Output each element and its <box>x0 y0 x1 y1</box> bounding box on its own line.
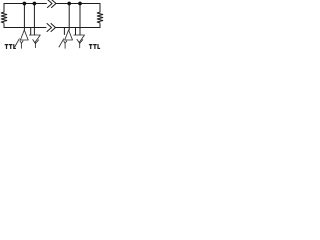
wire right end drop <box>99 4 101 13</box>
wire tap vertical D (x80) <box>79 4 81 36</box>
wire left end drop <box>3 4 5 13</box>
wire bottom bus left segment <box>4 27 46 29</box>
arrowhead V on G2 output <box>33 40 39 44</box>
label TTL left <box>5 44 16 49</box>
junction dot 4 <box>78 2 82 6</box>
wire top bus left segment <box>4 3 47 5</box>
junction dot 2 <box>33 2 37 6</box>
resistor R2 (right termination) <box>97 12 103 23</box>
resistor R1 (left termination) <box>1 12 7 23</box>
arrow stem below G3 <box>64 43 66 48</box>
break chevrons bottom line <box>47 24 56 32</box>
driver gate G3 (up triangle, right station) <box>65 30 73 40</box>
arrowhead V on G4 output <box>77 39 83 43</box>
receiver gate G4 (down triangle, right station) <box>74 35 85 42</box>
wire tap vertical C (x69.2) <box>68 4 70 31</box>
junction dot 1 <box>23 2 27 6</box>
wire tap vertical A (x24.4) <box>23 4 25 31</box>
label TTL right <box>89 44 100 49</box>
receiver gate G2 (down triangle, left station) <box>29 35 40 42</box>
wire short drop from bottom bus to G4 (x75.5) <box>75 28 77 36</box>
arrow stem below G1 <box>20 43 22 48</box>
driver gate G1 (up triangle, left station) <box>20 30 28 40</box>
wire top bus right segment <box>56 3 101 5</box>
junction dot 3 <box>67 2 71 6</box>
wire short drop from bottom bus at G3 left (x64.4) <box>63 28 65 35</box>
wire bottom bus right segment <box>55 27 100 29</box>
wire short drop from bottom bus to G2 (x30.7) <box>30 28 32 36</box>
wire right resistor to bottom bus <box>99 24 101 28</box>
break chevrons top line <box>48 0 57 8</box>
arrowhead V below G1 <box>20 41 23 43</box>
wire tap vertical B (x34.4) <box>33 4 35 36</box>
output arrow stem of G2 <box>34 42 36 47</box>
output arrow stem of G4 <box>79 43 81 48</box>
arrowhead V below G3 <box>64 41 67 43</box>
arrow into G1 from TTL left <box>15 39 20 47</box>
arrow into G3 from below <box>59 39 64 47</box>
wire left resistor to bottom bus <box>3 24 5 28</box>
